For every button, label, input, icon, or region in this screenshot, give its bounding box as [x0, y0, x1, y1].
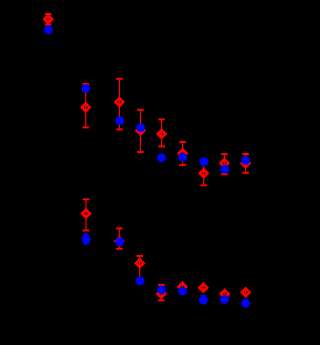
blue circle C12: [136, 277, 145, 286]
red diamond D4: [137, 127, 145, 135]
red errorbar E12: [136, 256, 143, 282]
red diamond D16: [221, 290, 229, 298]
red errorbar E5: [158, 119, 165, 146]
red diamond D6: [179, 149, 187, 157]
blue circle C6: [178, 153, 187, 162]
blue circle C10: [82, 235, 91, 244]
red errorbar E3: [116, 79, 123, 130]
red errorbar E10: [83, 199, 90, 230]
red errorbar E14: [181, 282, 183, 292]
blue circle C11: [115, 237, 124, 246]
red errorbar E7: [200, 162, 207, 185]
red diamond D10: [82, 210, 90, 218]
blue errorbar B15e: [200, 296, 206, 305]
red errorbar E1: [45, 14, 52, 24]
blue errorbar B10e: [83, 235, 89, 244]
red diamond D1: [44, 15, 52, 23]
red diamond D12: [136, 259, 144, 267]
red errorbar E17: [245, 287, 247, 297]
red diamond D14: [179, 283, 187, 291]
blue circle C5: [157, 153, 166, 162]
red diamond D8: [221, 159, 229, 167]
red diamond D11: [115, 237, 123, 245]
blue circle C2: [81, 84, 90, 93]
red errorbar E16: [224, 289, 226, 299]
blue circle C17: [241, 299, 250, 308]
blue circle C16: [220, 295, 229, 304]
red diamond D3: [116, 98, 124, 106]
blue circle C1: [44, 25, 53, 34]
blue circle C3: [115, 116, 124, 125]
red errorbar E4: [137, 110, 144, 152]
blue circle C13: [157, 286, 166, 295]
red diamond D17: [242, 288, 250, 296]
red errorbar E11: [116, 228, 123, 248]
red errorbar E2: [82, 84, 89, 128]
red diamond D15: [199, 284, 207, 292]
red errorbar E8: [221, 154, 228, 174]
blue circle C15: [199, 296, 208, 305]
red errorbar E15: [202, 283, 204, 292]
red errorbar E9: [242, 154, 249, 173]
blue circle C4: [136, 123, 145, 132]
blue circle C8: [220, 165, 229, 174]
red diamond D2: [82, 104, 90, 112]
red diamond D9: [242, 159, 250, 167]
blue circle C14: [178, 287, 187, 296]
red diamond D5: [158, 130, 166, 138]
blue circle C9: [241, 156, 250, 165]
red diamond D7: [200, 169, 208, 177]
red errorbar E6: [179, 142, 186, 165]
blue circle C7: [200, 157, 209, 166]
red diamond D13: [157, 290, 165, 298]
red errorbar E13: [158, 285, 165, 300]
